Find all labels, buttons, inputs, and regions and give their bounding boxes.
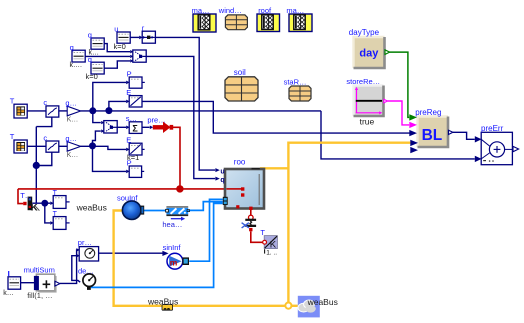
sinInf mass flow sink bbox=[162, 243, 189, 269]
wire: T2 output to c2 bbox=[27, 145, 46, 147]
svg-text:roof: roof bbox=[258, 6, 272, 15]
junction: dot3 bbox=[89, 142, 96, 149]
block E2 bbox=[126, 136, 144, 163]
svg-text:P: P bbox=[127, 158, 132, 167]
svg-text:weaBus: weaBus bbox=[76, 202, 107, 212]
room air temperature sensor (K box) bbox=[260, 228, 277, 257]
svg-text:T: T bbox=[10, 96, 15, 105]
svg-text:storeRe…: storeRe… bbox=[346, 77, 380, 86]
roo heat port air (red wire terminal) bbox=[241, 187, 244, 190]
svg-text:E: E bbox=[126, 88, 131, 97]
wire: constant k to multiSum input bbox=[21, 282, 34, 284]
wire: red main horizontal to roo air heat port bbox=[18, 188, 241, 190]
soil record bbox=[225, 68, 258, 101]
svg-text:E: E bbox=[126, 136, 131, 145]
wire: g1 output long run to x=321 (node row1) bbox=[80, 110, 321, 112]
wire: fluid souInf to hea duct bbox=[144, 210, 166, 212]
dayType calendar block bbox=[349, 28, 390, 68]
wire: dot3 up jog to multiplex2 input2 bbox=[93, 131, 101, 146]
wire: fluid de gauge along bottom to roo port bbox=[91, 203, 223, 287]
time table T2 bbox=[10, 132, 27, 153]
preErr feedback block bbox=[475, 124, 519, 165]
svg-text:multiSum: multiSum bbox=[24, 265, 55, 274]
svg-text:u: u bbox=[220, 168, 224, 175]
converter c1 bbox=[43, 98, 58, 117]
wire: r block output down to roo input u bbox=[155, 37, 215, 170]
wire: yellow weaBus vertical up to preReg input4 bbox=[288, 143, 410, 303]
block E1 (slew rate / energy) bbox=[126, 88, 142, 107]
wire: multiplex2 output to sum block bbox=[117, 126, 126, 128]
wire: yellow weaBus junction circle to weaBus connector bbox=[291, 305, 297, 307]
weaBus connector icon (bottom right) bbox=[298, 296, 338, 318]
svg-text:u: u bbox=[114, 25, 118, 34]
wire: u constant to r block input bbox=[130, 36, 139, 38]
wire: red roo bottom port to flow element bbox=[250, 210, 252, 216]
svg-text:wind…: wind… bbox=[218, 6, 242, 15]
wire: dot3 right then jog down to E2 input bbox=[93, 146, 127, 149]
svg-text:c: c bbox=[43, 133, 47, 142]
storeRes boolean constant bbox=[346, 77, 387, 127]
svg-text:weaBus: weaBus bbox=[307, 297, 338, 307]
svg-text:s…: s… bbox=[126, 114, 137, 123]
wire: q2 output to multiplex3 input2 bbox=[85, 55, 130, 57]
multiplex2 bbox=[101, 121, 117, 133]
svg-text:k=0: k=0 bbox=[86, 72, 98, 81]
wire: dot1 down to multiplex2 input1 bbox=[93, 111, 101, 123]
wire: q3 output to multiplex3 input3 bbox=[104, 61, 130, 68]
roo heat port bottom bbox=[249, 207, 252, 210]
svg-text:souInf: souInf bbox=[117, 193, 138, 202]
junction: yellow open circle bbox=[285, 303, 291, 309]
wire: fluid sinInf to roo port bbox=[189, 199, 223, 261]
sum block s bbox=[126, 114, 142, 133]
wire: green dayType to preReg input1 bbox=[389, 52, 409, 117]
pressure gauge pr bbox=[76, 238, 98, 261]
junction: dotA bbox=[33, 162, 40, 169]
junction: dot1 bbox=[89, 107, 96, 114]
wire: dotB down to T-box2 input bbox=[45, 203, 51, 223]
svg-text:Σ: Σ bbox=[132, 124, 138, 134]
wire: c2 to g2 bbox=[59, 145, 67, 147]
wire: sum block output to prescribed heat flow input bbox=[142, 126, 149, 128]
junction: dot2 bbox=[105, 107, 112, 114]
svg-text:k….: k…. bbox=[70, 62, 83, 69]
wire: yellow branch to roo weather port bbox=[260, 167, 289, 169]
wire: dot2 up to E1 input bbox=[109, 101, 126, 111]
roo input u bbox=[215, 168, 224, 175]
svg-text:pre…: pre… bbox=[147, 115, 165, 124]
wire: red flow element to room air temperature sensor bbox=[251, 231, 263, 242]
construction record ma2 bbox=[286, 6, 312, 32]
svg-text:soil: soil bbox=[234, 68, 246, 77]
wire: q1 output to multiplex3 input1 bbox=[104, 44, 130, 52]
wire: node row1 down at x=321 and right to preErr input 2 bbox=[321, 111, 475, 159]
K temperature converter sensor (left) bbox=[20, 191, 39, 213]
svg-text:preErr: preErr bbox=[481, 124, 504, 133]
wire: T1 output to c1 bbox=[27, 110, 46, 112]
svg-text:day: day bbox=[359, 48, 379, 60]
wire: preReg output to preErr input 1 bbox=[453, 132, 475, 139]
junction: red dot bbox=[176, 185, 183, 192]
svg-text:1. ..: 1. .. bbox=[266, 250, 277, 257]
svg-text:sinInf: sinInf bbox=[163, 243, 182, 252]
svg-text:pr…: pr… bbox=[78, 238, 92, 247]
constant q1 bbox=[88, 31, 104, 57]
prescribed heat flow pre bbox=[147, 115, 173, 133]
svg-text:de…: de… bbox=[78, 267, 94, 276]
gain g2 bbox=[65, 134, 80, 159]
svg-text:ma…: ma… bbox=[286, 6, 304, 15]
glazing record wind bbox=[218, 6, 248, 30]
wire: pr gauge output to sinInf flow input bbox=[99, 252, 166, 254]
thermal flow element below roo bbox=[242, 215, 257, 231]
weaBus connector mid label bbox=[147, 297, 178, 311]
gain g1 bbox=[65, 98, 80, 123]
prescribed temperature box2 bbox=[50, 211, 69, 230]
svg-text:K…: K… bbox=[67, 152, 79, 159]
svg-text:BL: BL bbox=[422, 127, 443, 144]
wire: dot1 up to P1 input bbox=[93, 82, 126, 111]
svg-text:T…: T… bbox=[20, 191, 32, 200]
converter c2 bbox=[43, 133, 58, 152]
svg-text:ma…: ma… bbox=[192, 6, 210, 15]
svg-text:K…: K… bbox=[67, 117, 79, 124]
svg-text:m: m bbox=[170, 257, 178, 267]
svg-text:T: T bbox=[10, 132, 15, 141]
multiSum block bbox=[24, 265, 60, 300]
svg-text:k…: k… bbox=[3, 290, 14, 297]
roo heat port rad bbox=[241, 193, 244, 196]
svg-text:true: true bbox=[360, 117, 375, 127]
wire: red down-left to K sensor port bbox=[18, 189, 23, 204]
svg-text:q: q bbox=[88, 31, 92, 40]
svg-text:g…: g… bbox=[65, 134, 77, 143]
roo fluid port block bbox=[223, 197, 228, 205]
time table T1 bbox=[10, 96, 27, 118]
svg-text:dayType: dayType bbox=[349, 28, 380, 37]
wire: yellow weaBus from souInf down and along bottom bbox=[114, 211, 286, 306]
wire: E1 output to preReg input 3 bbox=[142, 101, 409, 133]
staR record bbox=[284, 77, 311, 101]
wire: magenta storeRes to preReg input2 bbox=[387, 101, 409, 125]
wire: c1 to g1 bbox=[59, 110, 67, 112]
wire: c2 bottom port down and left to dotA bbox=[36, 152, 52, 165]
wire: red heat wire inside roo to air node bbox=[226, 188, 241, 190]
wire: c1 bottom port down and left to vertical bus bbox=[36, 117, 52, 127]
multiplex3 bbox=[130, 50, 146, 63]
wire: multiSum output up to pr gauge input1 bbox=[60, 250, 77, 284]
svg-text:T: T bbox=[53, 190, 58, 197]
construction record ma1 bbox=[192, 6, 216, 32]
construction record roof bbox=[257, 6, 280, 32]
wire: de gauge output up to pr gauge input2 bbox=[72, 256, 80, 283]
block r (pass-through) bbox=[139, 24, 155, 44]
constant u bbox=[114, 25, 131, 51]
heater duct hea bbox=[162, 206, 189, 229]
wire: fluid hea duct to roo port bbox=[190, 202, 223, 211]
svg-text:T: T bbox=[260, 228, 265, 237]
wire: dot3 down to P2 input bbox=[93, 146, 127, 171]
block P2 bbox=[126, 158, 144, 177]
svg-text:g…: g… bbox=[65, 98, 77, 107]
constant q2 bbox=[70, 43, 86, 69]
wire: multiplex3 output down to roo input q bbox=[146, 56, 215, 178]
svg-text:roo: roo bbox=[234, 158, 246, 167]
junction: dotB bbox=[41, 200, 48, 207]
svg-text:staR…: staR… bbox=[284, 77, 307, 86]
constant q3 bbox=[86, 55, 105, 81]
svg-text:q: q bbox=[88, 55, 92, 64]
souInf outside air source bbox=[117, 193, 144, 219]
wire: red prescribed heat flow down to red junction bbox=[173, 127, 180, 189]
preReg BL block bbox=[409, 108, 453, 153]
svg-text:hea…: hea… bbox=[162, 220, 182, 229]
constant k (bottom left) bbox=[3, 271, 20, 297]
wire: g2 output to dot3 bbox=[80, 145, 92, 147]
svg-text:k=0: k=0 bbox=[114, 42, 126, 51]
svg-text:P: P bbox=[127, 69, 132, 78]
room model roo bbox=[225, 158, 264, 209]
svg-text:c: c bbox=[43, 98, 47, 107]
wire: K sensor output through dotB to T-box1 input bbox=[32, 202, 50, 204]
density gauge de bbox=[78, 267, 95, 290]
svg-text:q: q bbox=[70, 43, 74, 52]
svg-text:T: T bbox=[53, 211, 58, 218]
roo heat port floor bbox=[236, 205, 239, 208]
svg-text:q: q bbox=[220, 177, 224, 184]
block P1 bbox=[126, 69, 145, 88]
wire: vertical from c1-branch through dotA to K-sensor node bbox=[35, 127, 37, 204]
svg-text:fill(1, …: fill(1, … bbox=[27, 291, 52, 300]
roo input q bbox=[215, 177, 224, 184]
svg-text:preReg: preReg bbox=[415, 108, 441, 117]
prescribed temperature box1 bbox=[50, 190, 69, 209]
